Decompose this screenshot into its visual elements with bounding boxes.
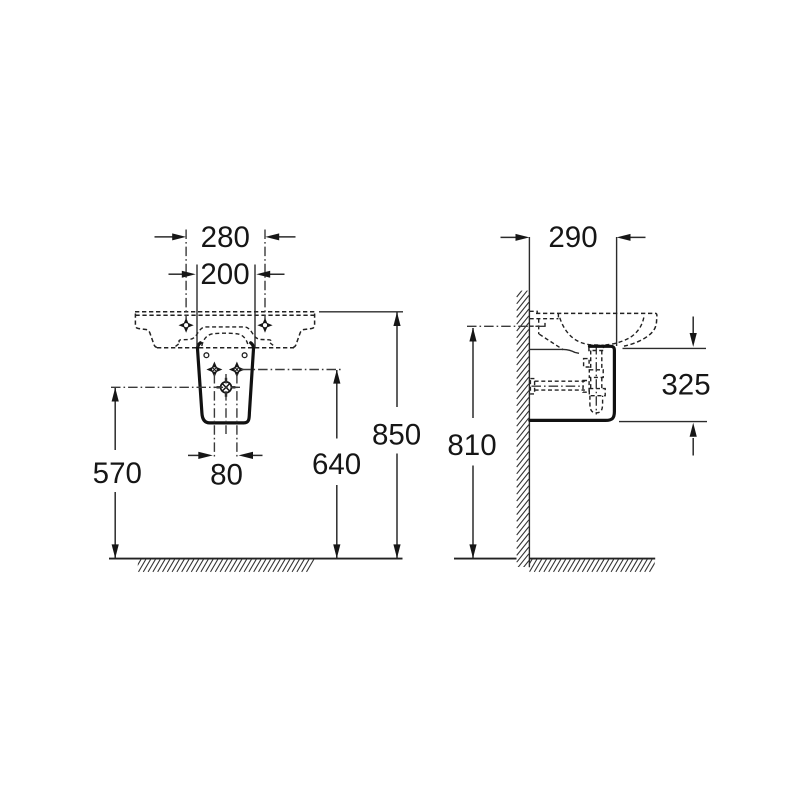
basin rim profile dashed	[536, 313, 657, 346]
dim 280 centerline right	[264, 230, 266, 320]
dim 290 label	[548, 221, 597, 254]
basin outline left side dashed	[135, 314, 158, 348]
basin bottom edge dashed	[157, 347, 294, 349]
ground hatch left	[134, 559, 314, 572]
fixing hole mark left star	[179, 318, 194, 333]
dim 640 line	[333, 370, 340, 559]
siphon pipe lower dashed	[591, 377, 602, 388]
siphon joint nut dashed	[589, 370, 603, 378]
basin top edge lower dashed line	[135, 314, 316, 316]
pedestal hole right small circle	[242, 353, 247, 358]
svg-text:850: 850	[372, 418, 421, 451]
svg-text:640: 640	[312, 448, 361, 481]
fixing height centerline	[467, 325, 545, 327]
dim 810 label	[447, 429, 496, 462]
ground line left	[109, 558, 403, 560]
siphon centerline vertical	[595, 345, 597, 415]
waste pipe centerline	[532, 385, 585, 387]
dim 280 arrow left	[155, 233, 187, 240]
wall hatch	[517, 282, 529, 576]
siphon side fitting dashed	[584, 359, 590, 367]
centerline horizontal 640 level	[241, 369, 341, 371]
semi pedestal profile (thick)	[530, 346, 615, 420]
waste pipe wall flange dashed	[530, 379, 534, 394]
basin outline right side dashed	[292, 314, 315, 348]
centerline vertical hole left	[213, 374, 215, 458]
dim 200 arrow right	[256, 271, 284, 278]
inner bowl dome dashed	[202, 333, 248, 346]
ground hatch right	[525, 559, 657, 572]
svg-text:810: 810	[447, 429, 496, 462]
svg-text:200: 200	[200, 258, 249, 291]
dim 290 arrow left	[501, 234, 530, 241]
pedestal hole left small circle	[204, 353, 209, 358]
basin rear underside diagonal dashed	[539, 334, 563, 350]
dim 280 arrow right	[265, 233, 295, 240]
tap ledge mid dashed	[530, 325, 539, 327]
dim 290 extension right	[616, 237, 618, 346]
tap ledge top dashed	[530, 318, 559, 320]
dim 850 label	[372, 418, 421, 451]
basin bowl section dashed	[560, 318, 598, 345]
centerline horizontal 570 level	[111, 386, 240, 388]
siphon flange top dashed	[589, 345, 604, 350]
pedestal P (thick)	[198, 343, 254, 423]
dim 200 extension line right	[254, 265, 256, 348]
dim 80 label	[210, 458, 243, 491]
fixing crosshair left	[206, 362, 222, 378]
tap hole tick dashed	[544, 323, 546, 328]
dim 325 extension top	[623, 347, 707, 349]
basin top edge upper dashed line	[135, 311, 317, 313]
drain crosshair center large	[217, 378, 236, 397]
basin rear vertical dashed	[557, 313, 559, 318]
tap ledge vertical dashed	[538, 319, 540, 335]
wall face line	[528, 237, 530, 567]
svg-text:290: 290	[548, 221, 597, 254]
dim 200 label	[200, 258, 249, 291]
dim 80 arrow left	[188, 452, 213, 459]
dim 850 line	[393, 312, 400, 558]
dim 290 arrow right	[617, 234, 646, 241]
trap cup dashed	[590, 396, 603, 413]
dim 810 line	[469, 328, 476, 559]
basin inner curl dashed	[602, 318, 644, 346]
dim 325 arrow down	[690, 317, 697, 347]
dim 200 extension line left	[196, 265, 198, 348]
dim 640 label	[312, 448, 361, 481]
dim 570 line	[112, 388, 119, 559]
fixing crosshair right	[229, 362, 245, 378]
dim 570 label	[93, 457, 142, 490]
dim 325 label	[661, 368, 710, 401]
siphon tailpipe dashed	[591, 351, 602, 370]
waste pipe nut dashed	[583, 381, 589, 393]
basin rim rear step dashed	[530, 311, 538, 313]
svg-text:80: 80	[210, 458, 243, 491]
dim 80 arrow right	[239, 452, 263, 459]
ground line right main	[529, 558, 655, 560]
inner bowl rim dashed	[176, 327, 275, 347]
fixing hole mark right star	[257, 318, 272, 333]
dim 850 extension line	[319, 311, 403, 313]
svg-text:570: 570	[93, 457, 142, 490]
dim 200 arrow left	[169, 271, 196, 278]
waste pipe horizontal dashed	[535, 381, 585, 390]
basin underside solid	[530, 349, 579, 353]
ground line right short	[454, 558, 517, 560]
svg-text:280: 280	[201, 221, 250, 254]
dim 325 arrow up	[690, 423, 697, 456]
trap nut dashed	[589, 389, 605, 396]
centerline vertical hole right	[236, 374, 238, 458]
svg-text:325: 325	[661, 368, 710, 401]
dim 280 centerline left	[185, 230, 187, 320]
centerline vertical drain	[225, 374, 227, 434]
dim 280 label	[201, 221, 250, 254]
dim 325 extension bottom	[619, 421, 707, 423]
